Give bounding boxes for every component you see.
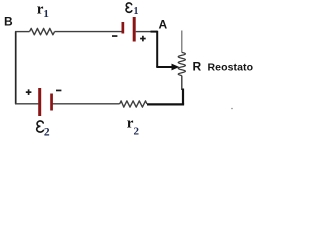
- wire r2 to battery E2: [52, 103, 120, 105]
- svg-text:Reostato: Reostato: [208, 61, 254, 73]
- battery E1 negative plate (short): [122, 22, 125, 34]
- svg-text:2: 2: [44, 126, 50, 138]
- wire r1 to battery E1: [55, 31, 122, 33]
- svg-text:B: B: [4, 15, 13, 29]
- label E1 minus sign: [112, 35, 117, 37]
- wire bottom right (rheostat to r2): [147, 103, 184, 105]
- battery E2 negative plate (short): [50, 94, 53, 111]
- label E2 minus sign: [56, 90, 61, 92]
- resistor r1: [30, 28, 55, 34]
- label E1 (emf epsilon-1): [126, 3, 132, 12]
- rheostat R zigzag: [178, 52, 185, 75]
- wire top from B to r1: [15, 31, 30, 33]
- wire A corner down to wiper: [156, 31, 158, 67]
- wire left vertical (B down to bottom): [15, 32, 17, 105]
- resistor r2: [120, 101, 147, 107]
- rheostat R bottom lead: [181, 76, 183, 90]
- svg-text:1: 1: [134, 6, 139, 17]
- svg-text:1: 1: [43, 8, 49, 20]
- battery E2 positive plate (tall): [38, 88, 41, 116]
- svg-text:R: R: [193, 60, 202, 74]
- label E1 plus sign: [140, 38, 146, 40]
- battery E1 positive plate (tall): [133, 17, 136, 42]
- svg-text:2: 2: [134, 125, 140, 137]
- wire battery E1 to node A corner: [136, 31, 151, 33]
- stray dot artifact: [231, 108, 233, 110]
- label E2 plus sign: [26, 91, 32, 93]
- svg-text:A: A: [159, 17, 168, 31]
- label E2 (emf epsilon-2): [37, 121, 44, 132]
- wire bottom left (E2 to left vertical): [15, 103, 39, 105]
- wiper arrow of rheostat: [156, 66, 172, 68]
- rheostat R top free lead: [181, 31, 183, 53]
